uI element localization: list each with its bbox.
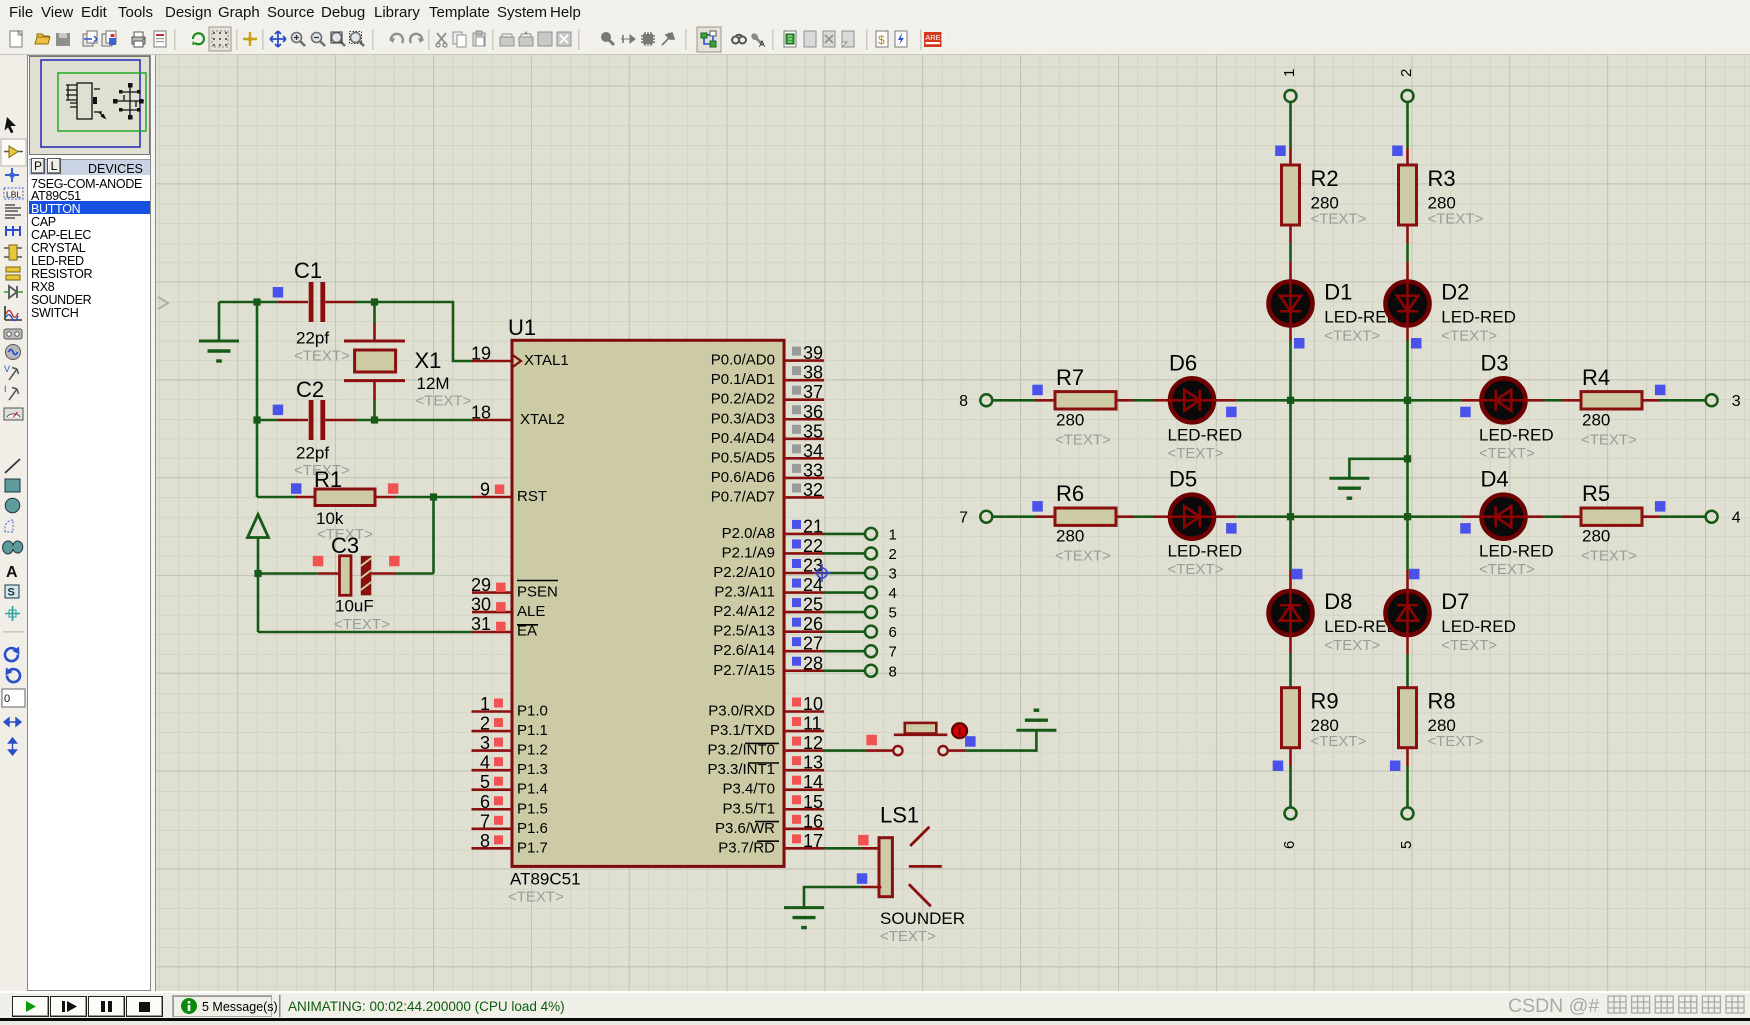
LED D2 (LED-RED) bbox=[1386, 280, 1516, 345]
LED D4 (LED-RED) bbox=[1479, 467, 1554, 579]
svg-text:1: 1 bbox=[480, 694, 490, 714]
toolbar icon: toggle grid (pressed) bbox=[212, 31, 228, 47]
pin 39 P0.0/AD0 lead bbox=[784, 359, 824, 362]
left tool: 2D arc bbox=[5, 520, 13, 532]
crystal X1 12M bbox=[344, 341, 472, 410]
wire: to EA pin bbox=[258, 631, 472, 634]
voltage marker pin 28 bbox=[792, 657, 801, 666]
R4 left lead bbox=[1562, 399, 1581, 402]
resistor R3 bbox=[1399, 165, 1484, 228]
svg-text:P1.7: P1.7 bbox=[517, 839, 548, 856]
resistor R5 bbox=[1581, 481, 1642, 565]
wire: terminal 7 to R6 bbox=[992, 515, 1035, 518]
svg-text:280: 280 bbox=[1056, 527, 1084, 546]
voltage marker left of D3 bbox=[1460, 407, 1471, 418]
pin 28 P2.7/A15 lead bbox=[784, 669, 824, 672]
left tool icons bbox=[0, 55, 27, 991]
left tool: x-mirror bbox=[4, 718, 21, 726]
voltage marker pin 26 bbox=[792, 618, 801, 627]
voltage marker at sounder bottom bbox=[857, 873, 868, 884]
left tool: y-mirror bbox=[9, 738, 17, 755]
logic-state marker (red) bbox=[494, 835, 503, 844]
svg-text:LED-RED: LED-RED bbox=[1168, 425, 1243, 444]
voltage marker left of D4 bbox=[1460, 523, 1471, 534]
svg-text:P3.1/TXD: P3.1/TXD bbox=[710, 722, 775, 739]
toolbar icon: open design bbox=[35, 34, 50, 44]
svg-text:R4: R4 bbox=[1582, 365, 1610, 390]
svg-text:V: V bbox=[4, 364, 10, 374]
wire: to C3 right bbox=[396, 572, 434, 575]
CSDN watermark bbox=[1508, 993, 1750, 1020]
grey logic marker pin 35 bbox=[792, 425, 801, 434]
junction row B / col 2 bbox=[1404, 513, 1411, 520]
toolbar icon: pan bbox=[270, 31, 286, 47]
svg-text:37: 37 bbox=[803, 382, 823, 402]
wire: C2 left bbox=[257, 419, 278, 422]
wire: col2 between rows bbox=[1406, 400, 1409, 516]
pin 2 P1.1 lead bbox=[472, 730, 513, 733]
svg-text:4: 4 bbox=[480, 753, 490, 773]
voltage marker pin 21 bbox=[792, 520, 801, 529]
svg-text:R8: R8 bbox=[1428, 689, 1456, 714]
left tool: graph mode bbox=[5, 306, 22, 321]
grey logic marker pin 38 bbox=[792, 366, 801, 375]
wire: R7 to D6 bbox=[1134, 399, 1153, 402]
svg-text:D1: D1 bbox=[1324, 280, 1352, 305]
svg-text:3: 3 bbox=[480, 733, 490, 753]
pin 3 P1.2 lead bbox=[472, 749, 513, 752]
R2 top lead bbox=[1289, 148, 1292, 165]
svg-text:D6: D6 bbox=[1169, 350, 1197, 375]
svg-text:<TEXT>: <TEXT> bbox=[334, 616, 390, 633]
svg-text:R2: R2 bbox=[1311, 166, 1339, 191]
svg-text:34: 34 bbox=[803, 441, 823, 461]
logic-state marker (red) bbox=[496, 583, 506, 593]
simulation control buttons bbox=[12, 996, 49, 1017]
terminal 8 bbox=[980, 394, 992, 406]
svg-text:P2.0/A8: P2.0/A8 bbox=[722, 525, 775, 542]
grey logic marker pin 37 bbox=[792, 386, 801, 395]
svg-text:32: 32 bbox=[803, 480, 823, 500]
junction ground tap bbox=[1404, 455, 1411, 462]
terminal 7 (P2.6) bbox=[865, 645, 877, 657]
left tool: markers mode bbox=[5, 606, 20, 621]
svg-text:28: 28 bbox=[803, 653, 823, 673]
svg-text:P3.5/T1: P3.5/T1 bbox=[722, 800, 775, 817]
toolbar icon: design explorer bbox=[784, 31, 796, 47]
svg-text:31: 31 bbox=[471, 614, 491, 634]
svg-text:<TEXT>: <TEXT> bbox=[1055, 431, 1111, 448]
left tool: 2D symbol bbox=[5, 585, 19, 599]
toolbar icon: delete block (disabled) bbox=[557, 32, 571, 46]
svg-text:P1.5: P1.5 bbox=[517, 800, 548, 817]
voltage marker at R4 bbox=[1655, 385, 1666, 396]
svg-text:LS1: LS1 bbox=[880, 803, 919, 828]
logic marker at button bbox=[866, 735, 877, 746]
svg-text:25: 25 bbox=[803, 595, 823, 615]
left tool: 2D closed path bbox=[3, 541, 23, 554]
wire: D2 to row A bbox=[1406, 341, 1409, 401]
wire: terminal2 to R3 bbox=[1406, 102, 1409, 148]
menu bar bbox=[0, 0, 1750, 24]
terminal 5 (P2.4) bbox=[865, 606, 877, 618]
wire: to X1 top bbox=[373, 302, 376, 323]
svg-text:5: 5 bbox=[889, 605, 897, 622]
left tool: current probe mode bbox=[4, 384, 19, 400]
svg-text:R9: R9 bbox=[1311, 689, 1339, 714]
voltage marker pin 22 bbox=[792, 539, 801, 548]
svg-text:I: I bbox=[4, 384, 7, 394]
svg-text:<TEXT>: <TEXT> bbox=[1581, 548, 1637, 565]
R1 right lead bbox=[375, 496, 395, 499]
voltage marker at R6 bbox=[1032, 501, 1043, 512]
svg-text:12: 12 bbox=[803, 733, 823, 753]
wire: C2 to XTAL2 bbox=[356, 419, 472, 422]
left tool: subcircuit mode bbox=[4, 245, 22, 260]
svg-text:7: 7 bbox=[480, 811, 490, 831]
capacitor C2 22pf bbox=[294, 377, 350, 479]
voltage marker below D1 bbox=[1294, 338, 1305, 349]
grey logic marker pin 39 bbox=[792, 347, 801, 356]
svg-text:<TEXT>: <TEXT> bbox=[1311, 733, 1367, 750]
svg-text:XTAL1: XTAL1 bbox=[524, 352, 569, 369]
svg-text:D7: D7 bbox=[1441, 589, 1469, 614]
logic-state marker (red) bbox=[495, 485, 505, 495]
svg-text:P1.1: P1.1 bbox=[517, 722, 548, 739]
svg-text:<TEXT>: <TEXT> bbox=[1441, 328, 1497, 345]
toolbar icon: wire autorouter (pressed) bbox=[701, 31, 716, 47]
toolbar icon: property assignment bbox=[751, 33, 765, 49]
svg-text:15: 15 bbox=[803, 792, 823, 812]
R1 left lead bbox=[295, 496, 315, 499]
svg-text:P3.0/RXD: P3.0/RXD bbox=[708, 703, 775, 720]
grey logic marker pin 33 bbox=[792, 464, 801, 473]
junction row A / col 2 bbox=[1404, 397, 1411, 404]
toolbar icon: redo (disabled) bbox=[410, 34, 424, 43]
svg-text:C2: C2 bbox=[296, 377, 324, 402]
wire: C3 to power net bbox=[258, 572, 318, 575]
logic-state marker (red) bbox=[496, 602, 506, 612]
svg-text:SOUNDER: SOUNDER bbox=[880, 909, 965, 928]
svg-text:33: 33 bbox=[803, 460, 823, 480]
left tool: 2D text bbox=[6, 564, 18, 581]
wire: P2.1 to terminal 2 bbox=[824, 552, 865, 555]
D1 bottom lead bbox=[1289, 328, 1292, 341]
R3 bottom lead bbox=[1406, 225, 1409, 243]
svg-text:10uF: 10uF bbox=[335, 597, 374, 616]
toolbar icon: undo (disabled) bbox=[389, 34, 403, 43]
terminal 3 bbox=[1706, 394, 1718, 406]
C1 left lead bbox=[278, 301, 308, 304]
voltage marker near C1 bbox=[273, 287, 284, 298]
C3 right lead bbox=[371, 572, 395, 575]
logic marker pin 12 bbox=[792, 737, 801, 746]
svg-text:280: 280 bbox=[1582, 410, 1610, 429]
logic-state marker (red) bbox=[494, 757, 503, 766]
svg-text:A: A bbox=[759, 39, 765, 49]
D6 left lead bbox=[1153, 399, 1169, 402]
toolbar icon: remove sheet (disabled) bbox=[823, 31, 835, 47]
logic marker right of C3 bbox=[389, 556, 400, 567]
svg-text:3: 3 bbox=[889, 566, 897, 583]
voltage marker pin 24 bbox=[792, 579, 801, 588]
wire: P2.7 to terminal 8 bbox=[824, 669, 865, 672]
wire: C1 to XTAL1 bbox=[356, 302, 472, 361]
left tool: virtual instruments mode bbox=[4, 408, 23, 420]
svg-text:11: 11 bbox=[803, 714, 822, 734]
wire: R1 to RST bbox=[395, 496, 472, 499]
wire: row A middle bbox=[1236, 399, 1462, 402]
logic-state marker (red) bbox=[494, 699, 503, 708]
resistor R7 bbox=[1055, 365, 1116, 449]
terminal 5 bbox=[1402, 807, 1414, 819]
pin 21 P2.0/A8 lead bbox=[784, 533, 824, 536]
pin 14 P3.4/T0 lead bbox=[784, 788, 824, 791]
svg-text:<TEXT>: <TEXT> bbox=[1311, 211, 1367, 228]
terminal 6 (P2.5) bbox=[865, 626, 877, 638]
logic-state marker (red) bbox=[494, 718, 503, 727]
pin 25 P2.4/A12 lead bbox=[784, 611, 824, 614]
left tool: rotate anticlockwise bbox=[6, 668, 20, 683]
terminal 1 (P2.0) bbox=[865, 528, 877, 540]
svg-text:PSEN: PSEN bbox=[517, 584, 558, 601]
logic marker pin 14 bbox=[792, 776, 801, 785]
left tool: 2D box bbox=[5, 479, 20, 492]
D7 bottom lead bbox=[1406, 637, 1409, 655]
toolbar bbox=[0, 24, 1750, 55]
wire: power arrow down to EA net bbox=[257, 538, 260, 633]
svg-text:P1.2: P1.2 bbox=[517, 742, 548, 759]
svg-text:D4: D4 bbox=[1481, 467, 1509, 492]
X1 bottom lead bbox=[373, 381, 376, 400]
terminal 2 bbox=[1402, 90, 1414, 102]
pin 34 P0.5/AD5 lead bbox=[784, 457, 824, 460]
pin 37 P0.2/AD2 lead bbox=[784, 398, 824, 401]
wire: D7 to R8 bbox=[1406, 654, 1409, 688]
terminal 8 (P2.7) bbox=[865, 665, 877, 677]
ground (left of C1) bbox=[199, 341, 239, 361]
voltage marker near C2 bbox=[273, 405, 284, 416]
toolbar icon: packaging tool bbox=[641, 32, 655, 46]
pin 10 P3.0/RXD lead bbox=[784, 710, 824, 713]
pin 26 P2.5/A13 lead bbox=[784, 630, 824, 633]
svg-text:2: 2 bbox=[1398, 69, 1415, 77]
voltage marker below R8 bbox=[1390, 761, 1401, 772]
wire: P2.2 to terminal 3 bbox=[824, 572, 865, 575]
ground (matrix) bbox=[1329, 478, 1369, 498]
wire: P2.5 to terminal 6 bbox=[824, 630, 865, 633]
pin 17 P3.7/RD lead bbox=[784, 847, 824, 850]
LED D1 (LED-RED) bbox=[1269, 280, 1399, 345]
pin 11 P3.1/TXD lead bbox=[784, 730, 824, 733]
voltage marker above D7 bbox=[1409, 569, 1420, 580]
voltage marker right of D5 bbox=[1226, 523, 1237, 534]
svg-text:P2.6/A14: P2.6/A14 bbox=[713, 642, 775, 659]
wire: P2.6 to terminal 7 bbox=[824, 650, 865, 653]
toolbar icon: electrical rule check bbox=[895, 31, 907, 47]
svg-text:P2.1/A9: P2.1/A9 bbox=[722, 544, 775, 561]
wire: gnd to C1 left bbox=[219, 301, 278, 304]
R2 bottom lead bbox=[1289, 225, 1292, 243]
svg-text:19: 19 bbox=[471, 344, 491, 364]
logic marker at sounder top bbox=[858, 835, 869, 846]
wire: down to R1 bbox=[256, 420, 259, 497]
svg-text:ALE: ALE bbox=[517, 603, 545, 620]
pin 15 P3.5/T1 lead bbox=[784, 808, 824, 811]
D8 top lead bbox=[1289, 570, 1292, 590]
wire: R3 to D2 bbox=[1406, 243, 1409, 261]
button right lead bbox=[948, 749, 965, 752]
svg-text:P0.4/AD4: P0.4/AD4 bbox=[711, 430, 775, 447]
svg-text:D3: D3 bbox=[1481, 350, 1509, 375]
pin 5 P1.4 lead bbox=[472, 788, 513, 791]
left tool: terminals mode bbox=[6, 267, 20, 280]
svg-text:13: 13 bbox=[803, 753, 823, 773]
grey logic marker pin 36 bbox=[792, 405, 801, 414]
svg-text:P1.0: P1.0 bbox=[517, 703, 548, 720]
svg-text:<TEXT>: <TEXT> bbox=[1479, 561, 1535, 578]
toolbar icon: decompose bbox=[662, 33, 674, 45]
svg-text:LED-RED: LED-RED bbox=[1168, 542, 1243, 561]
svg-text:4: 4 bbox=[889, 585, 897, 602]
D3 left-side lead bbox=[1527, 399, 1544, 402]
svg-text:R5: R5 bbox=[1582, 481, 1610, 506]
object selector panel bbox=[27, 55, 151, 991]
toolbar icon: new design bbox=[10, 31, 22, 47]
pin 30 ALE lead bbox=[472, 611, 512, 614]
wire: terminal 8 to R7 bbox=[992, 399, 1035, 402]
wire: P2.0 to terminal 1 bbox=[824, 533, 865, 536]
pin 23 P2.2/A10 lead bbox=[784, 572, 824, 575]
logic-state marker (red) bbox=[494, 816, 503, 825]
svg-text:P2.4/A12: P2.4/A12 bbox=[713, 603, 775, 620]
svg-text:<TEXT>: <TEXT> bbox=[294, 348, 350, 365]
svg-text:R1: R1 bbox=[314, 467, 342, 492]
wire: R9 to terminal 6 bbox=[1289, 766, 1292, 808]
svg-text:LED-RED: LED-RED bbox=[1441, 308, 1516, 327]
wire: button to ground bbox=[965, 730, 1036, 750]
pin 22 P2.1/A9 lead bbox=[784, 552, 824, 555]
resistor R4 bbox=[1581, 365, 1642, 449]
wire: row B middle bbox=[1236, 515, 1462, 518]
wire: R2 to D1 bbox=[1289, 243, 1292, 261]
svg-text:RST: RST bbox=[517, 488, 547, 505]
svg-text:P3.4/T0: P3.4/T0 bbox=[722, 781, 775, 798]
toolbar icon: goto sheet (disabled) bbox=[842, 31, 854, 47]
D3 right-side lead bbox=[1462, 399, 1480, 402]
svg-text:P0.2/AD2: P0.2/AD2 bbox=[711, 391, 775, 408]
capacitor C1 22pf bbox=[294, 258, 350, 365]
toolbar icon: redraw bbox=[192, 33, 204, 45]
left tool: voltage probe mode bbox=[4, 364, 19, 380]
svg-text:C3: C3 bbox=[331, 533, 359, 558]
wire: R8 to terminal 5 bbox=[1406, 766, 1409, 808]
LED D3 (LED-RED) bbox=[1479, 350, 1554, 462]
D7 top lead bbox=[1406, 570, 1409, 590]
left tool: tape recorder mode bbox=[4, 329, 22, 339]
wire: row B to D8 bbox=[1289, 517, 1292, 570]
pin 24 P2.3/A11 lead bbox=[784, 591, 824, 594]
wire: C1/C2 left vertical bbox=[256, 302, 259, 420]
grey logic marker pin 32 bbox=[792, 483, 801, 492]
toolbar icon: zoom all bbox=[331, 32, 345, 46]
ground (sounder) bbox=[784, 908, 824, 928]
voltage marker above D8 bbox=[1292, 569, 1303, 580]
svg-text:P1.4: P1.4 bbox=[517, 781, 548, 798]
R6 left lead bbox=[1035, 515, 1055, 518]
svg-text:A: A bbox=[6, 564, 18, 581]
svg-text:<TEXT>: <TEXT> bbox=[1168, 561, 1224, 578]
toolbar icon: mark output area bbox=[154, 31, 166, 47]
terminal 4 (P2.3) bbox=[865, 587, 877, 599]
sounder bottom lead bbox=[861, 886, 882, 889]
R8 bottom lead bbox=[1406, 748, 1409, 766]
voltage marker pin 27 bbox=[792, 637, 801, 646]
pin 18 XTAL2 lead bbox=[472, 419, 512, 422]
svg-text:9: 9 bbox=[480, 480, 490, 500]
svg-text:<TEXT>: <TEXT> bbox=[1581, 431, 1637, 448]
svg-text:2: 2 bbox=[480, 714, 490, 734]
toolbar icon: pick device bbox=[601, 32, 614, 45]
resistor R6 bbox=[1055, 481, 1116, 565]
svg-text:14: 14 bbox=[803, 772, 823, 792]
D6 right lead bbox=[1215, 399, 1236, 402]
svg-text:P1.3: P1.3 bbox=[517, 761, 548, 778]
svg-text:P2.7/A15: P2.7/A15 bbox=[713, 662, 775, 679]
svg-text:P2.2/A10: P2.2/A10 bbox=[713, 564, 775, 581]
wire: row B to D7 bbox=[1406, 517, 1409, 570]
svg-text:P0.5/AD5: P0.5/AD5 bbox=[711, 449, 775, 466]
R5 left lead bbox=[1562, 515, 1581, 518]
wire: R5 to terminal 4 bbox=[1660, 515, 1707, 518]
pin 8 P1.7 lead bbox=[472, 847, 513, 850]
svg-text:7: 7 bbox=[959, 509, 968, 526]
button left lead bbox=[866, 749, 893, 752]
svg-text:C1: C1 bbox=[294, 258, 322, 283]
toolbar icon: bill of materials bbox=[876, 31, 888, 47]
svg-text:$: $ bbox=[878, 33, 885, 47]
svg-text:LED-RED: LED-RED bbox=[1479, 425, 1554, 444]
svg-text:1: 1 bbox=[889, 526, 897, 543]
wire: D3 to R4 bbox=[1543, 399, 1562, 402]
power terminal (up arrow) bbox=[248, 515, 269, 538]
svg-text:<TEXT>: <TEXT> bbox=[416, 393, 472, 410]
svg-text:<TEXT>: <TEXT> bbox=[1479, 445, 1535, 462]
svg-text:P1.6: P1.6 bbox=[517, 820, 548, 837]
voltage marker below R9 bbox=[1273, 761, 1284, 772]
wire: terminal1 to R2 bbox=[1289, 102, 1292, 148]
svg-text:S: S bbox=[8, 587, 15, 599]
logic marker pin 13 bbox=[792, 756, 801, 765]
logic marker pin 16 bbox=[792, 815, 801, 824]
toolbar icon: search tag bbox=[732, 35, 746, 44]
wire: R4 to terminal 3 bbox=[1660, 399, 1707, 402]
button actuator marker (red circle) bbox=[952, 723, 967, 738]
svg-text:LED-RED: LED-RED bbox=[1479, 542, 1554, 561]
toolbar icon: move block (disabled) bbox=[519, 31, 533, 46]
svg-text:280: 280 bbox=[1582, 527, 1610, 546]
left tool: 2D circle bbox=[5, 498, 20, 513]
svg-text:26: 26 bbox=[803, 614, 823, 634]
junction C1-left bbox=[253, 298, 260, 305]
R7 left lead bbox=[1035, 399, 1055, 402]
svg-text:4: 4 bbox=[1732, 509, 1741, 526]
wire: D1 to row A bbox=[1289, 341, 1292, 401]
C3 left lead bbox=[318, 572, 340, 575]
voltage marker term1 bbox=[1275, 146, 1286, 157]
resistor R2 bbox=[1282, 165, 1367, 228]
toolbar icon: copy (disabled) bbox=[453, 32, 466, 47]
